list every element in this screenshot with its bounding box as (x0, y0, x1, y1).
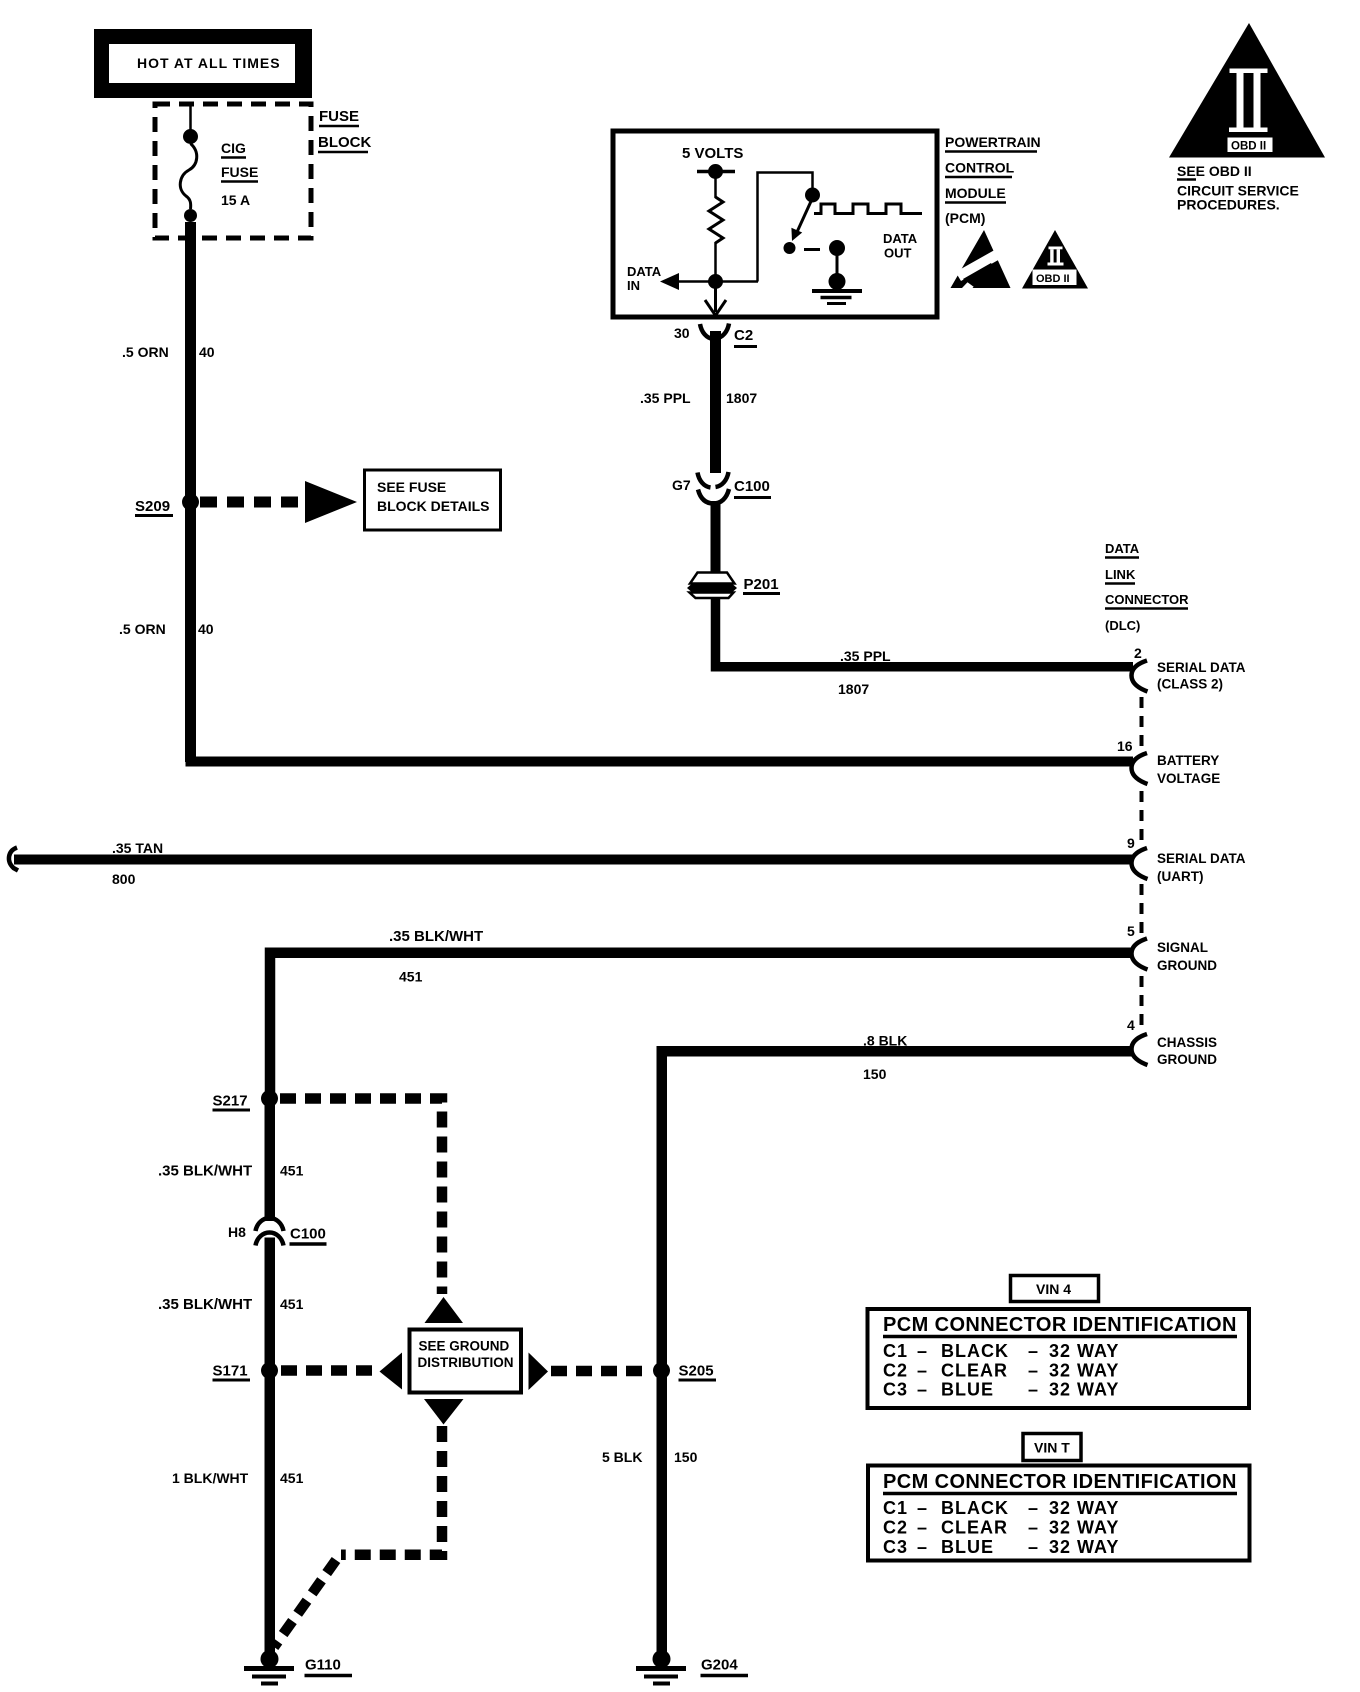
svg-text:150: 150 (674, 1449, 698, 1465)
svg-text:451: 451 (399, 969, 423, 985)
wire C100 to P201 (711, 501, 721, 573)
svg-text:G204: G204 (701, 1657, 738, 1674)
svg-text:4: 4 (1127, 1017, 1135, 1033)
svg-text:POWERTRAIN: POWERTRAIN (945, 134, 1041, 150)
svg-text:BATTERY: BATTERY (1157, 753, 1219, 768)
powertrain control module PCM box (613, 131, 937, 317)
svg-text:15 A: 15 A (221, 192, 250, 208)
svg-text:C1–BLACK–32 WAY: C1–BLACK–32 WAY (883, 1498, 1119, 1518)
svg-text:G7: G7 (672, 477, 691, 493)
value label 5 BLK 150 (602, 1449, 698, 1465)
svg-text:.35 PPL: .35 PPL (640, 390, 691, 406)
value label .35 BLK/WHT 451 (389, 928, 483, 985)
svg-text:150: 150 (863, 1066, 887, 1082)
svg-text:VIN T: VIN T (1034, 1440, 1070, 1456)
arrow right (ground distribution) (529, 1353, 549, 1391)
svg-text:S217: S217 (213, 1093, 248, 1110)
svg-text:.35 BLK/WHT: .35 BLK/WHT (158, 1296, 252, 1313)
svg-text:GROUND: GROUND (1157, 958, 1217, 973)
svg-text:DATA: DATA (627, 264, 662, 279)
OBD II triangle symbol (large, top right) (1169, 23, 1325, 158)
svg-text:451: 451 (280, 1470, 304, 1486)
wire junction to data-in arrow (676, 280, 758, 283)
svg-text:MODULE: MODULE (945, 185, 1006, 201)
label G110 (305, 1657, 353, 1676)
arrow DATA IN (660, 273, 679, 290)
svg-text:9: 9 (1127, 835, 1135, 851)
svg-text:OBD II: OBD II (1036, 273, 1070, 285)
splice S205 (653, 1362, 716, 1380)
fuse CIG FUSE 15A (180, 129, 198, 222)
svg-text:2: 2 (1134, 645, 1142, 661)
connector C100 pin H8 (256, 1218, 284, 1246)
arrow to fuse block details (305, 481, 357, 523)
splice S217 (213, 1090, 279, 1110)
svg-text:1807: 1807 (726, 390, 757, 406)
svg-text:VIN 4: VIN 4 (1036, 1281, 1071, 1297)
dashed wire diagonal to G110 (274, 1560, 336, 1647)
svg-text:.35 PPL: .35 PPL (840, 648, 891, 664)
dashed wire S171 to ground distribution (281, 1365, 377, 1376)
svg-text:SEE OBD II: SEE OBD II (1177, 163, 1252, 179)
svg-text:DATA: DATA (883, 231, 918, 246)
dashed reference wire from S209 (200, 497, 304, 508)
connector C100 pin G7 (698, 472, 730, 504)
value label .35 PPL 1807 (horizontal run) (838, 648, 891, 697)
svg-text:(PCM): (PCM) (945, 210, 985, 226)
svg-text:BLOCK DETAILS: BLOCK DETAILS (377, 498, 490, 514)
switch arm (transistor driver) (791, 198, 812, 241)
net label SERIAL DATA (CLASS 2) (1157, 660, 1246, 692)
svg-text:451: 451 (280, 1296, 304, 1312)
svg-text:5 VOLTS: 5 VOLTS (682, 145, 743, 162)
connector label C100 (734, 478, 771, 498)
label FUSE BLOCK (318, 108, 371, 152)
wire P201 down and right to DLC pin 2 (716, 598, 1134, 667)
svg-text:C100: C100 (290, 1226, 326, 1243)
svg-text:OUT: OUT (884, 246, 912, 261)
svg-text:800: 800 (112, 871, 136, 887)
net label SERIAL DATA (UART) (1157, 851, 1246, 884)
svg-text:PROCEDURES.: PROCEDURES. (1177, 197, 1280, 213)
hot at all times feed box (94, 29, 312, 98)
value label 1 BLK/WHT 451 (172, 1470, 304, 1486)
wire battery voltage to DLC pin 16 (191, 760, 1134, 762)
DLC terminal pin 5 (1132, 939, 1148, 970)
svg-text:S171: S171 (213, 1363, 248, 1380)
splice S209 (135, 494, 199, 516)
svg-text:G110: G110 (305, 1657, 341, 1674)
dashed wire S217 to ground distribution (280, 1099, 442, 1295)
svg-text:FUSE: FUSE (221, 164, 258, 180)
connector C2 pin 30 (PCM) (700, 324, 729, 340)
svg-text:BLOCK: BLOCK (318, 134, 371, 151)
wire .5 ORN 40 (fuse output down to S209 and on) (185, 222, 196, 762)
ESD sensitivity triangle symbol (951, 230, 1011, 288)
node 5V supply tap (697, 164, 735, 179)
svg-text:C100: C100 (734, 478, 770, 495)
label G204 (701, 1657, 749, 1676)
svg-text:40: 40 (198, 621, 214, 637)
svg-text:DISTRIBUTION: DISTRIBUTION (418, 1355, 514, 1370)
node data junction (708, 274, 723, 289)
label DATA IN (627, 264, 662, 293)
arrow data output to pin 30 (705, 288, 726, 316)
svg-text:C2–CLEAR–32 WAY: C2–CLEAR–32 WAY (883, 1361, 1119, 1381)
wire 5V to resistor (714, 172, 717, 199)
svg-text:C2–CLEAR–32 WAY: C2–CLEAR–32 WAY (883, 1518, 1119, 1538)
wire from bus into fuse (189, 106, 192, 130)
table PCM connector identification (VIN T) (868, 1466, 1250, 1561)
svg-text:SERIAL DATA: SERIAL DATA (1157, 660, 1246, 675)
label DATA LINK CONNECTOR (DLC) (1105, 541, 1189, 633)
svg-text:SERIAL DATA: SERIAL DATA (1157, 851, 1246, 866)
arrow down (ground distribution) (424, 1399, 464, 1425)
wire junction up to switch (758, 173, 813, 282)
svg-text:VOLTAGE: VOLTAGE (1157, 771, 1220, 786)
OBD II triangle symbol (small) (1022, 230, 1088, 289)
wire .35 BLK/WHT 451 (S217 to C100) (265, 1093, 276, 1221)
svg-text:1 BLK/WHT: 1 BLK/WHT (172, 1470, 249, 1486)
table PCM connector identification (VIN 4) (868, 1309, 1250, 1408)
DLC terminal pin 4 (1132, 1034, 1148, 1065)
arrow left (ground distribution) (380, 1353, 403, 1390)
arrow up (ground distribution) (425, 1297, 464, 1323)
grommet P201 (687, 573, 737, 599)
ground G204 (636, 1650, 686, 1684)
ground (PCM internal) (812, 291, 862, 304)
svg-text:CIG: CIG (221, 140, 246, 156)
DLC body dashed line (1140, 697, 1144, 1026)
svg-text:P201: P201 (744, 576, 779, 593)
value label .35 PPL 1807 (640, 390, 757, 406)
note SEE OBD II CIRCUIT SERVICE PROCEDURES (1177, 163, 1299, 213)
note box SEE GROUND DISTRIBUTION (410, 1330, 522, 1393)
note box SEE FUSE BLOCK DETAILS (365, 470, 501, 530)
connector label C2 (734, 327, 757, 347)
dashed wire ground distribution down to G110 (341, 1426, 442, 1555)
svg-text:HOT AT ALL TIMES: HOT AT ALL TIMES (137, 55, 281, 71)
wire .8 BLK 150 (chassis ground to pin 4) (662, 1051, 1133, 1365)
node switch pivot (805, 188, 820, 203)
svg-text:H8: H8 (228, 1224, 246, 1240)
node switch contact left (784, 242, 796, 254)
ground G110 (244, 1650, 294, 1684)
label DATA OUT (883, 231, 918, 261)
wire 1 BLK/WHT 451 (S171 to G110) (265, 1370, 276, 1655)
label box VIN T (1023, 1434, 1081, 1461)
svg-text:5: 5 (1127, 923, 1135, 939)
svg-text:C1–BLACK–32 WAY: C1–BLACK–32 WAY (883, 1341, 1119, 1361)
wire .35 PPL 1807 (C2 to C100) (710, 331, 721, 473)
svg-text:SIGNAL: SIGNAL (1157, 940, 1208, 955)
square wave data signal (814, 204, 922, 214)
value label .35 BLK/WHT 451 (158, 1163, 304, 1180)
svg-text:PCM CONNECTOR IDENTIFICATION: PCM CONNECTOR IDENTIFICATION (883, 1314, 1237, 1336)
value label .5 ORN 40 (upper) (122, 344, 215, 360)
svg-text:CHASSIS: CHASSIS (1157, 1035, 1217, 1050)
connector label C100 (290, 1226, 327, 1245)
net label CHASSIS GROUND (1157, 1035, 1217, 1067)
node ground junction (829, 273, 846, 290)
label P201 (743, 576, 780, 594)
wire .35 BLK/WHT 451 (C100 to S171) (265, 1238, 276, 1371)
svg-text:S209: S209 (135, 498, 170, 515)
svg-text:451: 451 (280, 1163, 304, 1179)
svg-text:40: 40 (199, 344, 215, 360)
label box VIN 4 (1011, 1276, 1099, 1302)
svg-text:.35 TAN: .35 TAN (112, 840, 163, 856)
node switch contact right (829, 240, 845, 256)
label CIG FUSE 15 A (221, 140, 258, 208)
svg-text:CONNECTOR: CONNECTOR (1105, 592, 1189, 607)
value label .8 BLK 150 (863, 1033, 907, 1083)
svg-text:LINK: LINK (1105, 567, 1136, 582)
svg-text:16: 16 (1117, 738, 1133, 754)
value label .35 TAN 800 (112, 840, 163, 887)
wire .35 BLK/WHT 451 (signal ground to pin 5) (270, 953, 1133, 1093)
svg-text:.8 BLK: .8 BLK (863, 1033, 907, 1049)
svg-text:OBD II: OBD II (1231, 141, 1266, 153)
svg-text:.5 ORN: .5 ORN (122, 344, 169, 360)
net label SIGNAL GROUND (1157, 940, 1217, 973)
wire break hook (left end of TAN wire) (9, 848, 18, 871)
wire contact gap (804, 248, 820, 251)
svg-text:C2: C2 (734, 327, 753, 344)
dashed wire ground distribution to S205 (551, 1366, 650, 1377)
svg-text:SEE FUSE: SEE FUSE (377, 479, 446, 495)
wire 5 BLK 150 (S205 to G204) (657, 1370, 668, 1655)
svg-text:(DLC): (DLC) (1105, 618, 1140, 633)
DLC terminal pin 2 (1132, 661, 1148, 692)
value label .5 ORN 40 (lower) (119, 621, 214, 637)
wire resistor to data junction (714, 242, 717, 276)
svg-text:30: 30 (674, 325, 690, 341)
svg-text:(CLASS 2): (CLASS 2) (1157, 677, 1223, 692)
svg-text:IN: IN (627, 278, 640, 293)
svg-text:(UART): (UART) (1157, 869, 1204, 884)
wire contact to ground (836, 248, 839, 282)
svg-text:PCM CONNECTOR IDENTIFICATION: PCM CONNECTOR IDENTIFICATION (883, 1471, 1237, 1493)
svg-text:.35 BLK/WHT: .35 BLK/WHT (389, 928, 483, 945)
value label .35 BLK/WHT 451 (158, 1296, 304, 1313)
svg-text:GROUND: GROUND (1157, 1052, 1217, 1067)
svg-text:SEE GROUND: SEE GROUND (419, 1339, 510, 1354)
net label BATTERY VOLTAGE (1157, 753, 1220, 786)
svg-text:S205: S205 (679, 1363, 714, 1380)
DLC terminal pin 16 (1132, 753, 1148, 784)
DLC terminal pin 9 (1132, 848, 1148, 879)
wire .35 TAN 800 (serial data UART to pin 9) (14, 855, 1133, 865)
resistor (pull-up in PCM) (709, 197, 723, 243)
fuse block (dashed box) (155, 104, 311, 238)
svg-text:5 BLK: 5 BLK (602, 1449, 642, 1465)
svg-text:1807: 1807 (838, 681, 869, 697)
svg-text:FUSE: FUSE (319, 108, 359, 125)
label POWERTRAIN CONTROL MODULE (PCM) (945, 134, 1041, 226)
splice S171 (213, 1362, 279, 1380)
svg-text:.5 ORN: .5 ORN (119, 621, 166, 637)
svg-text:.35 BLK/WHT: .35 BLK/WHT (158, 1163, 252, 1180)
svg-text:DATA: DATA (1105, 541, 1140, 556)
svg-text:CONTROL: CONTROL (945, 160, 1015, 176)
